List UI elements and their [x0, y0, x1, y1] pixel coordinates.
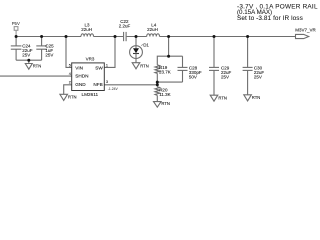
wire SHDN from sheet edge — [0, 75, 72, 77]
svg-text:50V: 50V — [189, 74, 197, 79]
svg-text:22uH: 22uH — [81, 27, 92, 32]
net flag M3V7_VR — [296, 34, 309, 38]
capacitor C30 — [247, 37, 249, 68]
svg-text:RTN: RTN — [33, 64, 42, 69]
svg-text:Set to -3.81 for IR loss: Set to -3.81 for IR loss — [237, 15, 303, 22]
svg-text:LM2611: LM2611 — [82, 92, 99, 97]
node NFB junction — [156, 83, 159, 86]
svg-text:RTN: RTN — [68, 95, 77, 100]
node P5V tap — [15, 35, 18, 38]
inductor L4 — [147, 34, 160, 37]
svg-text:5: 5 — [69, 63, 71, 67]
diode D1 — [130, 37, 143, 63]
svg-text:VR3: VR3 — [86, 56, 95, 61]
node ground tap — [27, 59, 30, 62]
svg-text:1: 1 — [106, 64, 108, 68]
power symbol P5V — [14, 27, 18, 37]
svg-text:SW: SW — [95, 66, 103, 71]
node jog junction — [167, 55, 170, 58]
ground RTN under C29 — [210, 95, 218, 101]
svg-text:M3V7_VR: M3V7_VR — [295, 28, 316, 33]
junction dots — [15, 35, 250, 86]
svg-text:11.3K: 11.3K — [159, 92, 170, 97]
svg-text:SHDN: SHDN — [75, 74, 88, 79]
annotation text block — [237, 3, 318, 21]
svg-text:RTN: RTN — [218, 96, 227, 101]
wire C22 to L4 — [127, 36, 147, 38]
capacitor C29 — [213, 37, 215, 68]
svg-text:22uH: 22uH — [147, 27, 158, 32]
wire rail P5V net — [16, 36, 81, 38]
ground RTN under C24/C25 — [25, 60, 32, 69]
svg-text:RTN: RTN — [161, 101, 170, 106]
capacitor C24 — [15, 37, 17, 46]
svg-text:3: 3 — [106, 80, 108, 84]
node divider tap — [167, 35, 170, 38]
wire SW up to rail — [104, 37, 115, 68]
wire divider drop from rail — [168, 37, 170, 57]
wire GND to ground — [64, 85, 72, 95]
inductor L3 — [81, 34, 94, 37]
svg-text:NFB: NFB — [93, 82, 102, 87]
svg-text:D1: D1 — [143, 43, 149, 48]
wire jog to R19/C28 tops — [157, 56, 182, 65]
wire VIN drop — [66, 37, 72, 68]
node C29 tap — [213, 35, 216, 38]
ground RTN under D1 — [132, 63, 140, 69]
svg-text:25V: 25V — [45, 53, 53, 58]
svg-text:4: 4 — [69, 72, 71, 76]
svg-text:2: 2 — [69, 80, 71, 84]
wire C24 bottom to C25 bottom — [16, 59, 41, 61]
ground RTN under GND pin — [60, 94, 68, 100]
svg-text:25V: 25V — [254, 74, 262, 79]
node C28/NFB junction — [156, 81, 159, 84]
svg-text:RTN: RTN — [252, 95, 261, 100]
wire C28 bottom to NFB node — [157, 81, 182, 83]
node C25 tap — [40, 35, 43, 38]
svg-text:2.2uF: 2.2uF — [119, 24, 131, 29]
svg-text:VIN: VIN — [75, 66, 83, 71]
regulator VR3 box — [72, 63, 105, 91]
svg-text:P5V: P5V — [12, 21, 20, 26]
node VIN tap — [65, 35, 68, 38]
node C30 tap — [246, 35, 249, 38]
capacitor C28 — [182, 56, 184, 67]
node SW tap — [114, 35, 117, 38]
svg-text:-1.24V: -1.24V — [108, 87, 119, 91]
wire R19 to NFB node — [156, 73, 158, 85]
resistor R20 — [155, 87, 160, 96]
svg-text:23.7K: 23.7K — [159, 69, 171, 74]
svg-text:RTN: RTN — [140, 63, 149, 68]
node D1 tap — [135, 35, 138, 38]
svg-text:25V: 25V — [221, 74, 229, 79]
wire NFB node to R20 — [156, 85, 158, 87]
wire output rail — [160, 36, 296, 38]
ground RTN under C30 — [244, 95, 252, 101]
capacitor C22 plates — [123, 32, 125, 41]
svg-text:GND: GND — [75, 82, 86, 87]
resistor R19 — [155, 65, 160, 73]
wire L3 to C22 — [94, 36, 124, 38]
wire NFB to divider — [104, 84, 157, 86]
capacitor C25 — [41, 37, 43, 46]
svg-text:25V: 25V — [22, 53, 30, 58]
ground RTN under R20 — [154, 102, 162, 108]
wire R20 to ground — [156, 95, 158, 101]
